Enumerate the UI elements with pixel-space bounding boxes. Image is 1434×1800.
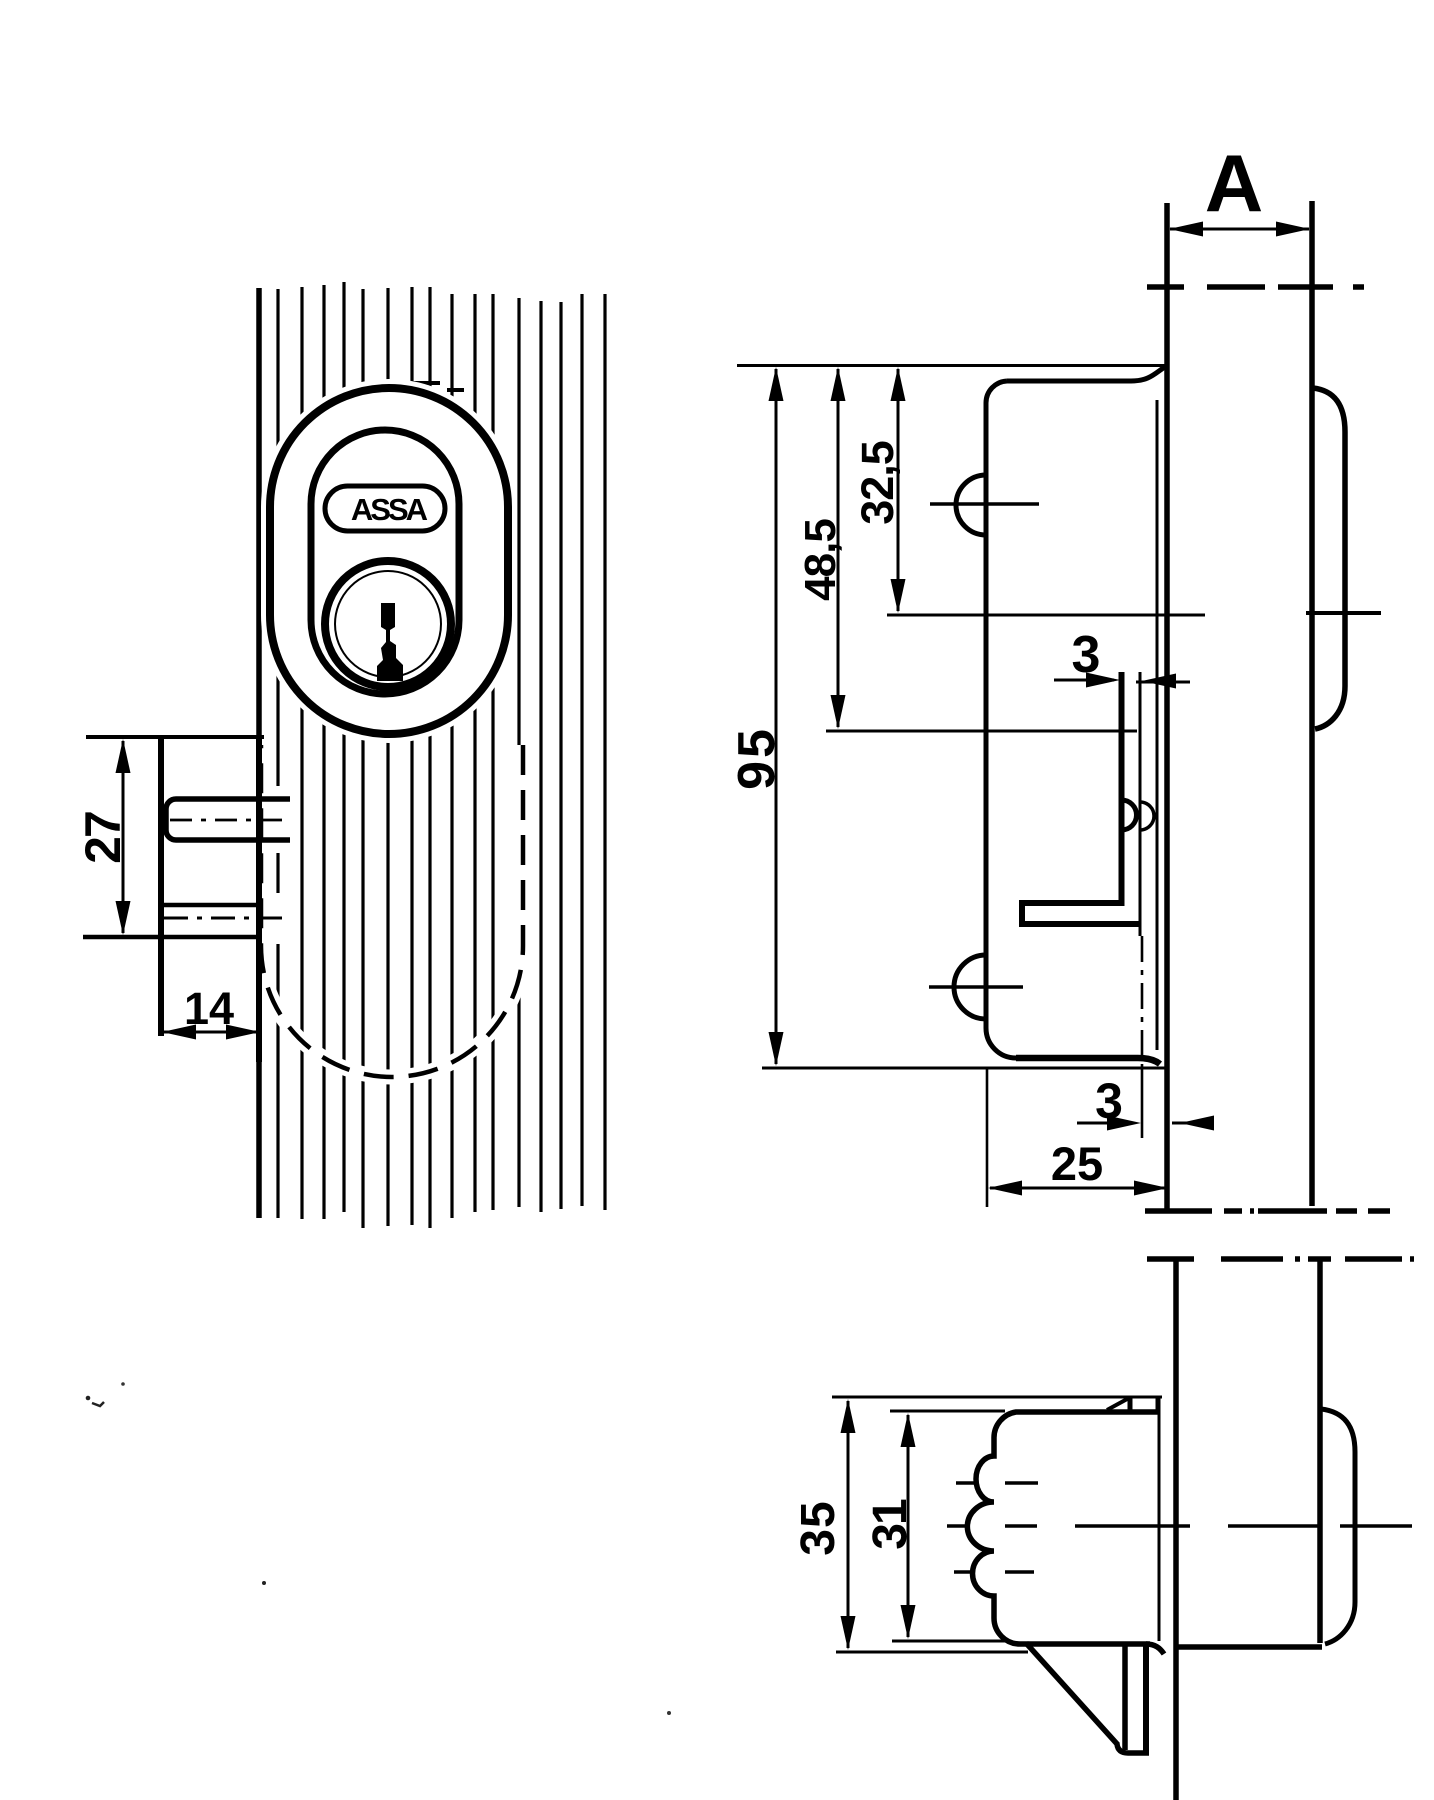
svg-text:35: 35 [792, 1500, 845, 1555]
svg-text:25: 25 [1051, 1137, 1103, 1190]
svg-text:95: 95 [728, 726, 786, 790]
svg-text:A: A [1205, 139, 1264, 229]
svg-text:31: 31 [864, 1499, 917, 1550]
svg-text:48,5: 48,5 [796, 519, 845, 601]
svg-text:14: 14 [184, 983, 234, 1034]
svg-text:32,5: 32,5 [852, 441, 903, 525]
svg-text:ASSA: ASSA [351, 492, 428, 527]
svg-text:27: 27 [75, 812, 131, 864]
